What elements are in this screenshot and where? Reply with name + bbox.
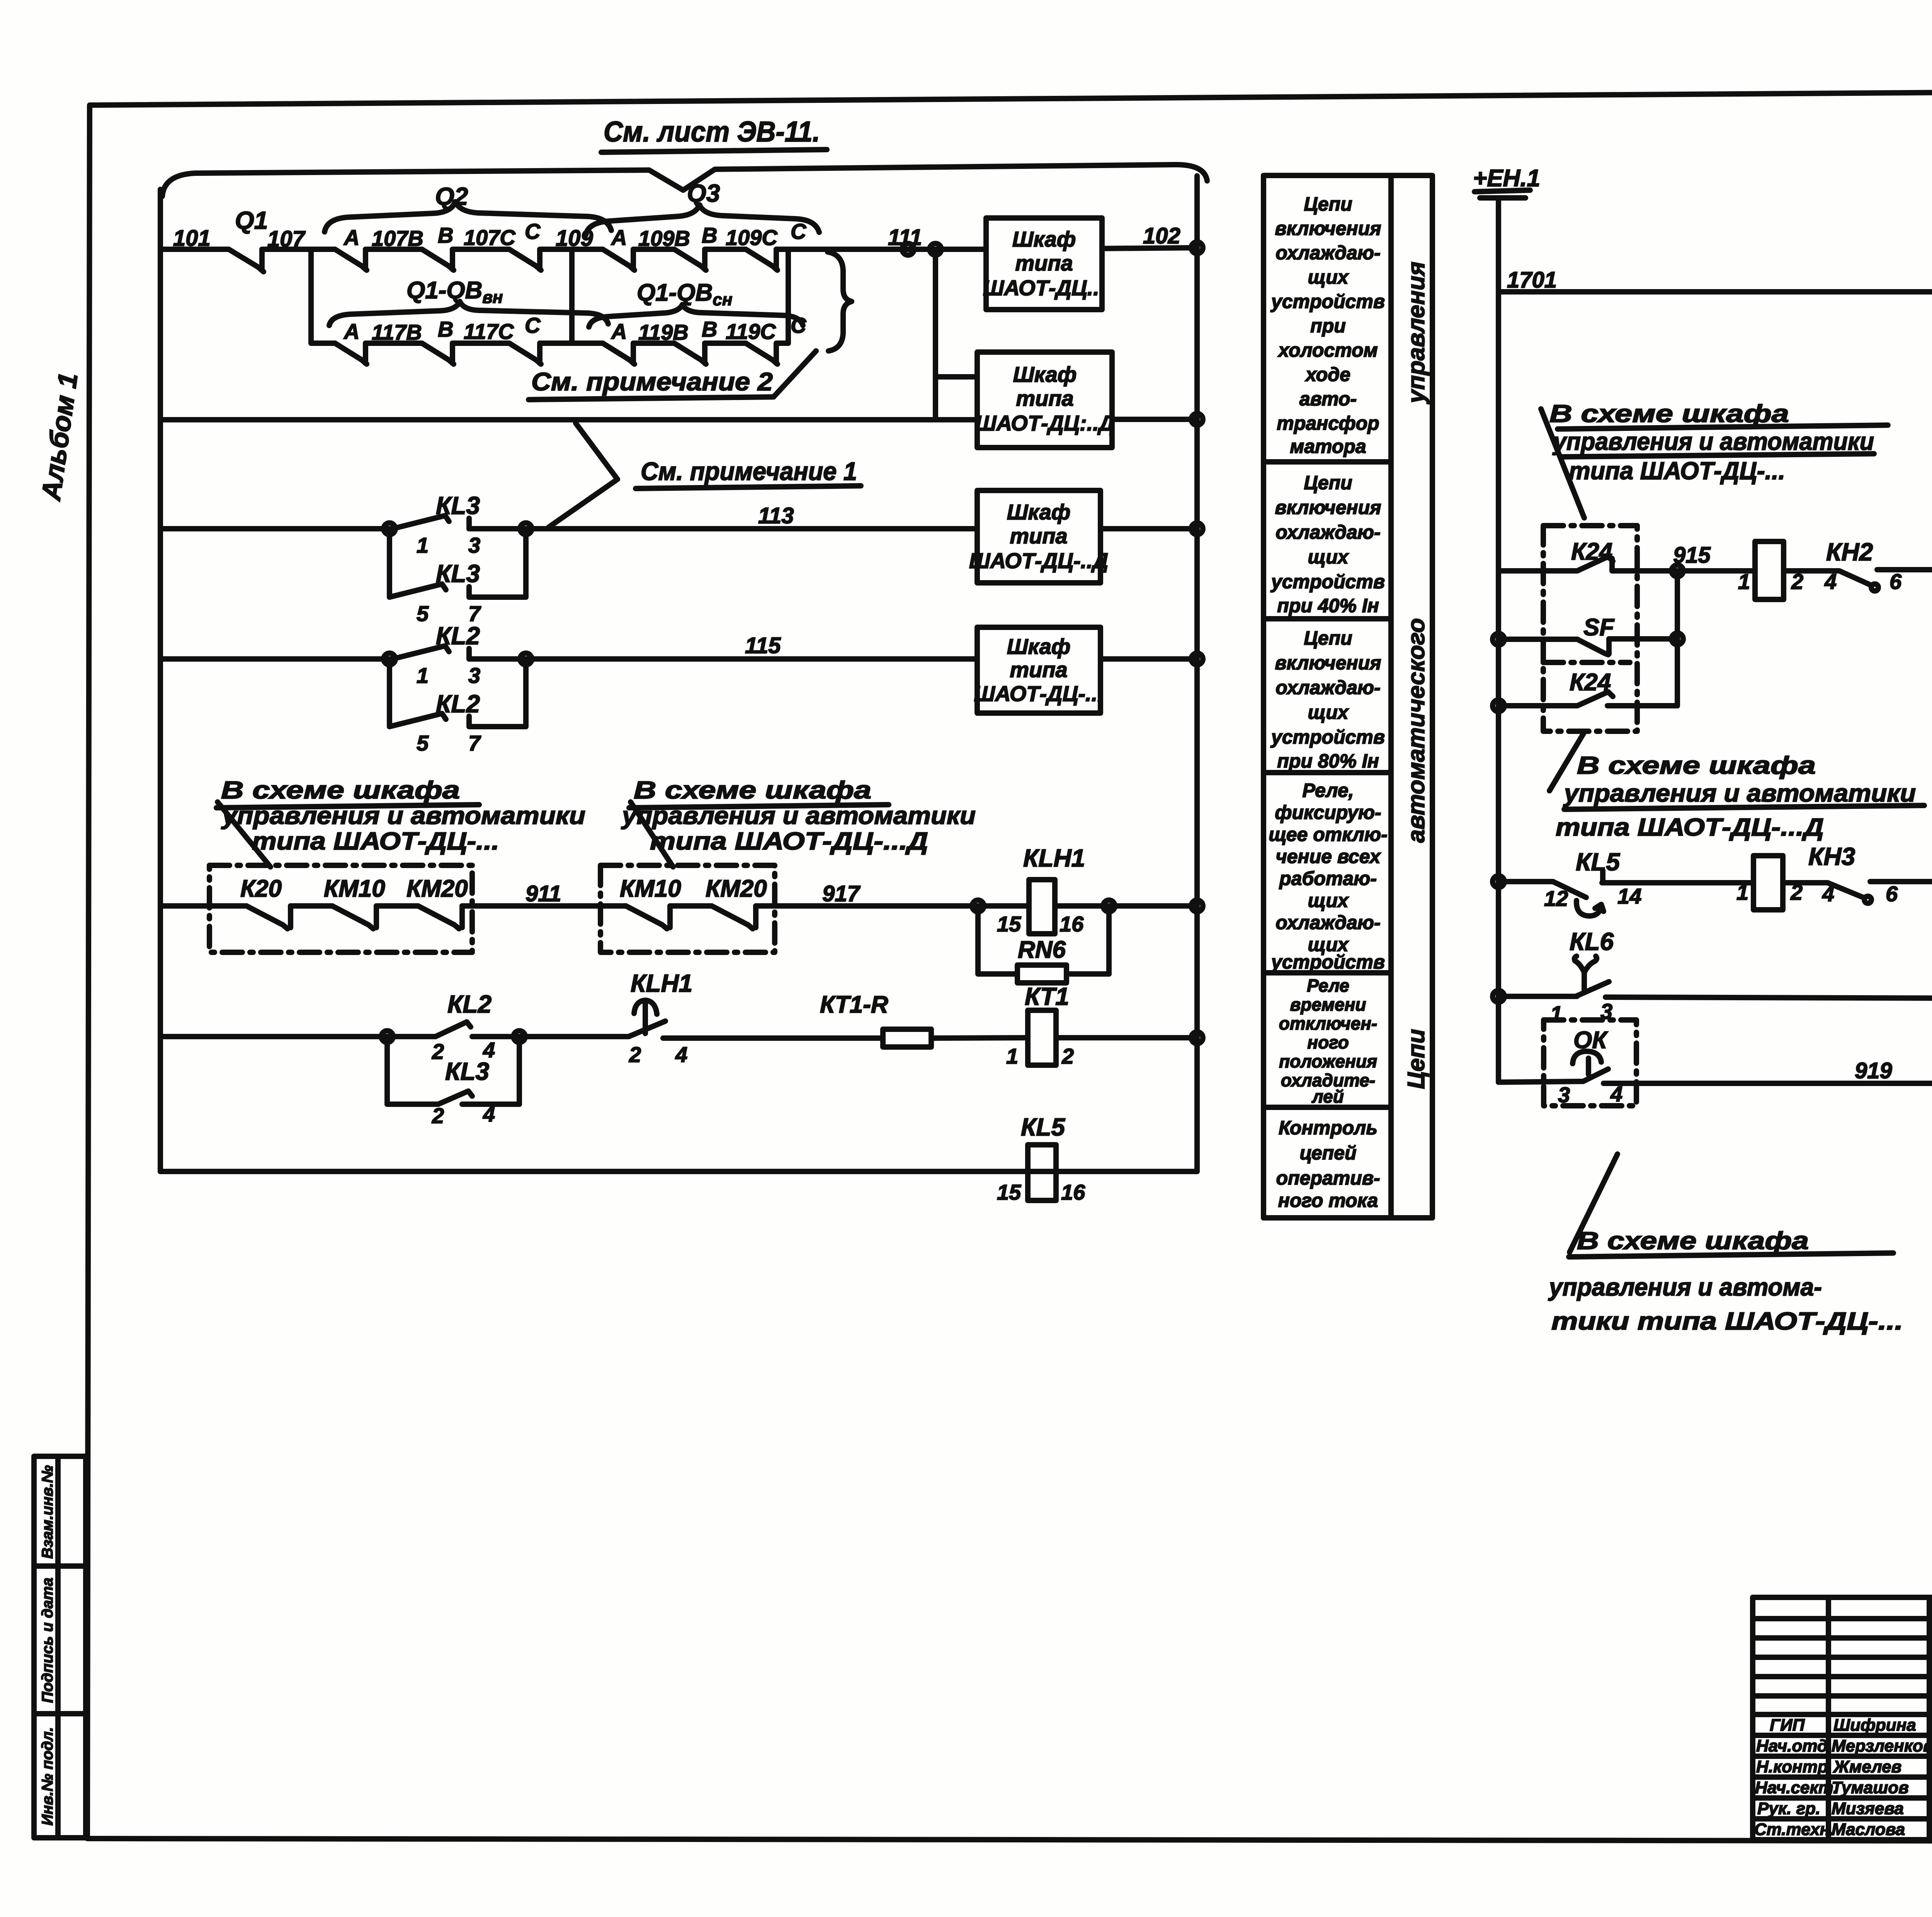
svg-text:Шкаф: Шкаф xyxy=(1012,227,1076,251)
svg-text:Цепи: Цепи xyxy=(1304,193,1352,215)
svg-text:КLН1: КLН1 xyxy=(631,969,692,997)
wire K20-KM10 xyxy=(291,903,332,909)
wire 917 xyxy=(756,881,1029,906)
disconnector Q1-QVvn phase C xyxy=(509,313,541,364)
svg-text:устройств: устройств xyxy=(1270,951,1385,973)
contact KM20 xyxy=(418,906,462,929)
svg-text:Q1: Q1 xyxy=(235,206,268,234)
signature row St.tekhn xyxy=(1754,1820,1932,1839)
disconnector Q2 phase B xyxy=(422,223,454,270)
svg-text:119В: 119В xyxy=(638,320,689,344)
svg-text:4: 4 xyxy=(675,1042,687,1067)
svg-text:ШАОТ-ДЦ-...: ШАОТ-ДЦ-... xyxy=(974,681,1103,706)
svg-text:типа ШАОТ-ДЦ-...: типа ШАОТ-ДЦ-... xyxy=(252,827,499,855)
svg-text:Цепи: Цепи xyxy=(1304,627,1352,649)
svg-text:КL2: КL2 xyxy=(436,690,480,718)
middle legend table frame xyxy=(1264,175,1432,1218)
svg-text:См. примечание 1: См. примечание 1 xyxy=(641,457,857,485)
svg-text:КL5: КL5 xyxy=(1576,848,1620,876)
svg-text:цепей: цепей xyxy=(1299,1142,1356,1164)
svg-text:управления: управления xyxy=(1403,262,1430,404)
wire KL5 to KH3 xyxy=(1602,880,1753,885)
contact KM10 xyxy=(332,906,376,929)
wire row 113 right xyxy=(469,503,977,529)
svg-text:Нач.сект.: Нач.сект. xyxy=(1755,1778,1838,1797)
wire row KT1 left xyxy=(160,1034,384,1039)
svg-text:4: 4 xyxy=(1822,882,1834,906)
svg-text:управления и автома-: управления и автома- xyxy=(1548,1273,1822,1301)
svg-text:включения: включения xyxy=(1275,652,1381,674)
wire cabinet4 to bus xyxy=(1100,653,1203,665)
brace Q1-QVsn xyxy=(589,279,803,327)
svg-text:6: 6 xyxy=(1889,569,1902,594)
svg-text:В: В xyxy=(702,223,717,247)
wire cabinet3 to bus xyxy=(1100,523,1203,535)
svg-text:работаю-: работаю- xyxy=(1279,868,1377,889)
svg-text:15: 15 xyxy=(997,1180,1021,1204)
svg-text:КТ1-R: КТ1-R xyxy=(820,991,888,1018)
disconnector Q1-QVsn phase B xyxy=(674,317,717,364)
resistor KT1-R xyxy=(820,991,931,1047)
svg-text:отключен-: отключен- xyxy=(1279,1013,1377,1033)
svg-text:Q1-QВвн: Q1-QВвн xyxy=(406,277,503,307)
legend row 6 text xyxy=(1276,1117,1380,1211)
wire row 115 right xyxy=(469,633,977,659)
signature row Ruk.gr xyxy=(1757,1799,1932,1818)
wire KM10-KM20 (2) xyxy=(670,903,712,909)
brace right of group xyxy=(828,252,852,351)
svg-text:117С: 117С xyxy=(464,319,514,344)
wire 102 xyxy=(1102,223,1203,254)
wire row 1701 xyxy=(1498,267,1932,298)
disconnector Q1-QVsn phase A xyxy=(603,319,634,364)
svg-text:107С: 107С xyxy=(464,225,516,250)
svg-text:охлаждаю-: охлаждаю- xyxy=(1276,242,1380,264)
signature row Nach.sekt xyxy=(1755,1778,1932,1797)
svg-text:Реле,: Реле, xyxy=(1302,780,1354,801)
wire to node 109 xyxy=(540,247,603,252)
wire 117B xyxy=(366,320,422,344)
svg-text:включения: включения xyxy=(1275,497,1381,518)
contact KM20 (2) xyxy=(712,906,756,929)
svg-text:5: 5 xyxy=(417,601,429,626)
svg-text:5: 5 xyxy=(417,731,429,755)
annotation cabinet type right A xyxy=(1541,400,1888,518)
relay contact KL3 (2-4) branch xyxy=(381,1031,525,1128)
svg-text:ного: ного xyxy=(1307,1032,1349,1052)
contact K24 lower xyxy=(1493,692,1677,712)
contactor block K24-SF xyxy=(1543,526,1637,731)
svg-text:109В: 109В xyxy=(638,226,690,250)
svg-text:при 40% Iн: при 40% Iн xyxy=(1277,595,1379,616)
svg-text:1: 1 xyxy=(1738,569,1750,594)
disconnector Q1-QVsn phase C xyxy=(746,313,807,364)
wire SF-K24 tie xyxy=(1675,571,1680,706)
svg-text:Шифрина: Шифрина xyxy=(1833,1716,1916,1735)
legend vertical caption xyxy=(1403,262,1430,1089)
wire row2 xyxy=(160,417,977,422)
svg-text:Маслова: Маслова xyxy=(1832,1820,1905,1839)
svg-text:107: 107 xyxy=(267,226,306,252)
wire branch 117 xyxy=(311,340,335,346)
svg-text:Инв.№ подл.: Инв.№ подл. xyxy=(39,1727,56,1826)
svg-text:охлаждаю-: охлаждаю- xyxy=(1276,912,1380,933)
brace over whole group xyxy=(162,165,1207,196)
legend row 3 text xyxy=(1270,627,1385,772)
relay contact KL2 (2-4) xyxy=(384,990,495,1064)
svg-text:Ст.техн.: Ст.техн. xyxy=(1754,1820,1835,1839)
wire branch 117 to tie xyxy=(540,340,603,346)
svg-text:КТ1: КТ1 xyxy=(1025,982,1069,1010)
wire contact KH2 to R1 xyxy=(1877,567,1932,572)
svg-text:матора: матора xyxy=(1290,436,1366,457)
legend row 1 text xyxy=(1270,193,1385,457)
svg-text:КL2: КL2 xyxy=(436,622,480,650)
wire 119B xyxy=(633,320,689,344)
cabinet box ShAOT-DC row101 xyxy=(983,218,1105,310)
svg-text:авто-: авто- xyxy=(1299,388,1357,410)
wire 109B xyxy=(633,226,690,250)
svg-text:4: 4 xyxy=(483,1102,495,1126)
svg-text:2: 2 xyxy=(629,1042,641,1067)
svg-text:Тумашов: Тумашов xyxy=(1832,1778,1909,1797)
wire 107C xyxy=(452,225,516,250)
wire bottom bus xyxy=(160,1169,1197,1174)
disconnector Q3 phase B xyxy=(674,223,717,270)
svg-text:включения: включения xyxy=(1275,218,1381,239)
svg-text:охлаждаю-: охлаждаю- xyxy=(1276,521,1380,543)
svg-text:911: 911 xyxy=(526,881,561,906)
svg-text:ходе: ходе xyxy=(1304,364,1350,385)
svg-text:КL2: КL2 xyxy=(447,990,492,1018)
contact OK xyxy=(1558,1051,1622,1107)
svg-text:1: 1 xyxy=(417,663,429,688)
svg-text:115: 115 xyxy=(745,633,781,658)
svg-text:типа ШАОТ-ДЦ-...: типа ШАОТ-ДЦ-... xyxy=(1569,457,1785,485)
svg-text:109С: 109С xyxy=(726,225,778,250)
wire cabinet2 to bus xyxy=(1112,414,1203,425)
note See sheet EV-11 xyxy=(601,116,827,152)
resistor RN6 bypass xyxy=(972,900,1115,983)
wire group tie to cabinet xyxy=(776,225,986,343)
wire contact to R2 xyxy=(1870,879,1932,884)
svg-text:времени: времени xyxy=(1290,994,1366,1015)
svg-text:3: 3 xyxy=(1558,1083,1570,1107)
svg-text:КL6: КL6 xyxy=(1570,928,1614,955)
wire KL6 contact to KT2 coil xyxy=(1605,997,1932,999)
svg-text:В схеме шкафа: В схеме шкафа xyxy=(1549,400,1789,427)
wire Q1 to node 107 xyxy=(262,247,335,252)
time relay coil KT1 xyxy=(1006,982,1074,1068)
node 109 xyxy=(556,226,593,343)
svg-text:ШАОТ-ДЦ-..Д: ШАОТ-ДЦ-..Д xyxy=(969,548,1108,573)
signature table grid xyxy=(1753,1597,1932,1840)
svg-text:управления и автоматики: управления и автоматики xyxy=(621,802,976,829)
wire KT1 to bus xyxy=(1056,1032,1203,1044)
wire row 919 start xyxy=(1498,1081,1583,1082)
svg-text:щих: щих xyxy=(1308,546,1349,568)
svg-text:К20: К20 xyxy=(240,875,282,902)
contact SF xyxy=(1493,633,1683,655)
svg-text:В схеме шкафа: В схеме шкафа xyxy=(221,776,460,804)
svg-text:КL3: КL3 xyxy=(445,1057,489,1085)
svg-text:устройств: устройств xyxy=(1270,571,1385,592)
svg-text:управления и автоматики: управления и автоматики xyxy=(221,802,585,829)
wire 919 xyxy=(1604,1058,1932,1083)
signature row N.kontr xyxy=(1756,1757,1932,1776)
svg-text:Рук. гр.: Рук. гр. xyxy=(1757,1799,1820,1818)
cabinet box ShAOT-DC-D (2) xyxy=(975,352,1114,448)
cabinet box ShAOT-DC-D (3) xyxy=(969,490,1108,583)
svg-text:КН2: КН2 xyxy=(1826,538,1873,566)
svg-text:С: С xyxy=(525,219,541,243)
contact block K20 KM10 KM20 xyxy=(209,865,472,952)
svg-text:КН3: КН3 xyxy=(1808,843,1855,870)
svg-text:КМ10: КМ10 xyxy=(620,875,681,902)
relay coil KH3 xyxy=(1736,843,1855,910)
wire KH3 to contact xyxy=(1783,880,1828,885)
svg-text:919: 919 xyxy=(1855,1058,1892,1083)
legend row 2 text xyxy=(1270,472,1385,616)
contact K24 upper xyxy=(1577,557,1613,571)
svg-text:щих: щих xyxy=(1308,701,1349,723)
disconnector Q3 phase C xyxy=(746,219,807,270)
svg-text:Подпись и дата: Подпись и дата xyxy=(39,1578,56,1703)
annotation left cabinet type xyxy=(216,776,585,867)
svg-text:типа: типа xyxy=(1016,386,1073,410)
svg-text:111: 111 xyxy=(888,225,922,250)
svg-text:16: 16 xyxy=(1060,912,1084,936)
wire row 911 into block xyxy=(160,903,247,909)
brace Q3 xyxy=(586,179,819,235)
relay coil KLH1 xyxy=(997,844,1085,936)
svg-text:типа ШАОТ-ДЦ-...Д: типа ШАОТ-ДЦ-...Д xyxy=(650,827,928,855)
wire branch 119 tie xyxy=(776,340,788,346)
svg-text:Н.контр: Н.контр xyxy=(1756,1757,1828,1776)
svg-text:ного тока: ного тока xyxy=(1278,1190,1378,1211)
relay contact KL2 upper (1-3) xyxy=(393,622,480,688)
legend row 5 text xyxy=(1279,976,1377,1107)
svg-text:В: В xyxy=(702,317,717,341)
svg-text:типа ШАОТ-ДЦ-...Д: типа ШАОТ-ДЦ-...Д xyxy=(1556,813,1824,841)
svg-text:113: 113 xyxy=(758,503,794,528)
svg-text:оператив-: оператив- xyxy=(1276,1167,1380,1189)
svg-text:2: 2 xyxy=(432,1103,444,1128)
svg-text:1701: 1701 xyxy=(1507,267,1557,293)
svg-text:2: 2 xyxy=(432,1039,444,1064)
svg-text:7: 7 xyxy=(468,731,481,755)
svg-text:Q1-QВсн: Q1-QВсн xyxy=(637,279,732,309)
svg-text:Контроль: Контроль xyxy=(1279,1117,1378,1139)
wire 911 xyxy=(462,881,626,906)
contact KL6 (1-3) xyxy=(1550,928,1614,1026)
disconnector Q2 phase C xyxy=(509,219,541,270)
contact block KM10 KM20 (2) xyxy=(600,865,775,952)
legend row 4 text xyxy=(1269,780,1388,973)
svg-text:ШАОТ-ДЦ:..Д: ШАОТ-ДЦ:..Д xyxy=(975,411,1114,435)
wire left bus xyxy=(158,189,163,1171)
svg-text:типа: типа xyxy=(1015,251,1073,275)
svg-text:С: С xyxy=(525,313,541,337)
wire row KL5 start xyxy=(1493,876,1553,887)
svg-text:при 80% Iн: при 80% Iн xyxy=(1277,750,1379,772)
svg-text:тики типа ШАОТ-ДЦ-...: тики типа ШАОТ-ДЦ-... xyxy=(1551,1307,1903,1335)
wire right bus xyxy=(1194,176,1200,1171)
disconnector Q1-QVvn phase A xyxy=(335,319,367,364)
wire 117C xyxy=(452,319,514,344)
left margin strip table xyxy=(34,1456,86,1838)
svg-text:трансфор: трансфор xyxy=(1277,412,1379,434)
svg-text:Q2: Q2 xyxy=(435,182,468,210)
svg-text:А: А xyxy=(611,319,627,344)
svg-text:Мизяева: Мизяева xyxy=(1832,1799,1904,1818)
svg-text:Взам.инв.№: Взам.инв.№ xyxy=(39,1465,56,1559)
svg-text:В схеме шкафа: В схеме шкафа xyxy=(634,776,871,804)
svg-text:щих: щих xyxy=(1308,890,1349,911)
svg-text:Шкаф: Шкаф xyxy=(1013,362,1077,386)
svg-text:16: 16 xyxy=(1061,1180,1085,1204)
svg-text:Цепи: Цепи xyxy=(1304,472,1352,494)
svg-text:Шкаф: Шкаф xyxy=(1007,634,1071,659)
svg-text:типа: типа xyxy=(1010,524,1067,548)
wire link row101 to cabinet2 xyxy=(930,243,977,420)
svg-text:Мерзленкова: Мерзленкова xyxy=(1832,1737,1932,1755)
svg-text:типа: типа xyxy=(1010,657,1067,682)
power bus +EH1 xyxy=(1473,165,1540,198)
contact K20 xyxy=(247,906,291,929)
wire row KL6 start xyxy=(1493,991,1577,1002)
signature row Nach.otd xyxy=(1756,1737,1932,1755)
svg-text:КМ20: КМ20 xyxy=(406,875,468,902)
svg-text:чение всех: чение всех xyxy=(1276,846,1381,867)
svg-text:3: 3 xyxy=(468,663,480,688)
svg-text:915: 915 xyxy=(1673,543,1711,568)
note See note 2 xyxy=(529,351,816,400)
node 101 wire xyxy=(160,226,229,251)
relay contact KL3 upper (1-3) xyxy=(393,492,480,557)
time contact KL5 (12-14) xyxy=(1544,848,1641,916)
svg-text:КМ20: КМ20 xyxy=(706,875,767,902)
svg-text:устройств: устройств xyxy=(1270,291,1385,312)
svg-text:4: 4 xyxy=(1824,569,1837,594)
svg-text:КL5: КL5 xyxy=(1021,1113,1065,1141)
svg-text:117В: 117В xyxy=(372,320,422,344)
svg-text:Альбом 1: Альбом 1 xyxy=(36,371,83,503)
node 107 xyxy=(267,226,311,343)
svg-text:101: 101 xyxy=(173,226,211,251)
relay contact KL3 lower (5-7) branch xyxy=(384,523,532,626)
wire KLH1 to bus xyxy=(1055,900,1203,912)
svg-text:положения: положения xyxy=(1279,1051,1377,1071)
svg-text:1: 1 xyxy=(1736,880,1748,904)
svg-text:КL3: КL3 xyxy=(436,560,480,587)
wire KM10-KM20 xyxy=(376,903,418,909)
annotation right cabinet type D xyxy=(621,776,976,867)
wire 119C xyxy=(705,319,776,344)
svg-text:RN6: RN6 xyxy=(1018,936,1066,963)
brace Q2 xyxy=(325,182,611,232)
svg-text:См. примечание 2: См. примечание 2 xyxy=(531,367,773,396)
wire KH2 to contact xyxy=(1784,568,1839,574)
svg-text:Q3: Q3 xyxy=(687,179,720,207)
svg-text:Цепи: Цепи xyxy=(1403,1029,1430,1089)
svg-text:В: В xyxy=(438,317,453,341)
svg-text:щее отклю-: щее отклю- xyxy=(1269,824,1388,845)
wire KT1-R to KT1 xyxy=(931,1038,1028,1038)
svg-text:6: 6 xyxy=(1886,882,1898,906)
svg-text:автоматического: автоматического xyxy=(1403,618,1430,843)
disconnector Q1 xyxy=(229,206,268,272)
svg-text:В схеме шкафа: В схеме шкафа xyxy=(1577,1227,1809,1255)
svg-text:КLН1: КLН1 xyxy=(1023,844,1085,872)
valve block OK xyxy=(1544,1020,1636,1106)
svg-text:А: А xyxy=(343,225,359,250)
svg-text:15: 15 xyxy=(997,912,1021,936)
wire row 113 left xyxy=(160,526,393,531)
contact KH2 xyxy=(1824,538,1902,594)
svg-text:щих: щих xyxy=(1308,266,1349,288)
svg-text:лей: лей xyxy=(1311,1086,1344,1107)
svg-text:107В: 107В xyxy=(372,226,423,250)
svg-text:А: А xyxy=(343,319,359,344)
svg-text:В схеме шкафа: В схеме шкафа xyxy=(1577,751,1816,779)
svg-text:В: В xyxy=(438,223,453,247)
contact KH3 (4-6) xyxy=(1822,882,1898,906)
svg-text:102: 102 xyxy=(1143,223,1180,249)
disconnector Q1-QVvn phase B xyxy=(422,317,454,364)
svg-text:ГИП: ГИП xyxy=(1770,1716,1805,1735)
svg-text:охлаждаю-: охлаждаю- xyxy=(1276,677,1380,698)
svg-text:1: 1 xyxy=(1006,1044,1018,1068)
wire 915 xyxy=(1612,543,1755,577)
wire row 115 left xyxy=(160,656,393,662)
svg-text:КL3: КL3 xyxy=(436,492,480,519)
svg-text:См. лист ЭВ-11.: См. лист ЭВ-11. xyxy=(604,116,820,148)
svg-text:Жмелев: Жмелев xyxy=(1833,1757,1901,1776)
svg-text:12: 12 xyxy=(1544,886,1568,911)
wire left rail xyxy=(1496,201,1501,1082)
wire KLH1 to KT1-R xyxy=(663,1035,883,1041)
disconnector Q3 phase A xyxy=(603,225,634,270)
svg-text:ШАОТ-ДЦ...: ШАОТ-ДЦ... xyxy=(983,276,1105,300)
signature row GIP xyxy=(1770,1716,1932,1735)
svg-text:14: 14 xyxy=(1617,884,1641,908)
wire 107B xyxy=(366,226,423,250)
svg-text:холостом: холостом xyxy=(1277,339,1378,361)
svg-text:С: С xyxy=(791,219,807,243)
note See note 1 xyxy=(549,423,861,527)
wire 109C xyxy=(705,225,778,250)
disconnector Q2 phase A xyxy=(335,225,367,270)
annotation cabinet type right B xyxy=(1549,734,1924,841)
wire KL2 to KLH1 contact xyxy=(472,1034,629,1039)
relay coil KL5 on bottom bus xyxy=(997,1113,1085,1204)
brace Q1-QVvn xyxy=(329,277,608,325)
svg-text:1: 1 xyxy=(417,533,429,557)
svg-text:при: при xyxy=(1310,315,1346,337)
svg-text:Шкаф: Шкаф xyxy=(1007,500,1071,524)
svg-text:Реле: Реле xyxy=(1307,976,1349,996)
relay contact KL2 lower (5-7) branch xyxy=(384,653,532,755)
svg-text:2: 2 xyxy=(1061,1044,1074,1068)
svg-text:К24: К24 xyxy=(1571,538,1612,565)
cabinet box ShAOT-DC (4) xyxy=(974,627,1103,713)
wire row 915 start xyxy=(1498,568,1577,574)
svg-text:управления и автоматики: управления и автоматики xyxy=(1552,427,1874,455)
svg-text:управления и автоматики: управления и автоматики xyxy=(1563,779,1916,807)
annotation cabinet type right C xyxy=(1548,1154,1903,1335)
relay coil KH2 xyxy=(1738,541,1803,599)
